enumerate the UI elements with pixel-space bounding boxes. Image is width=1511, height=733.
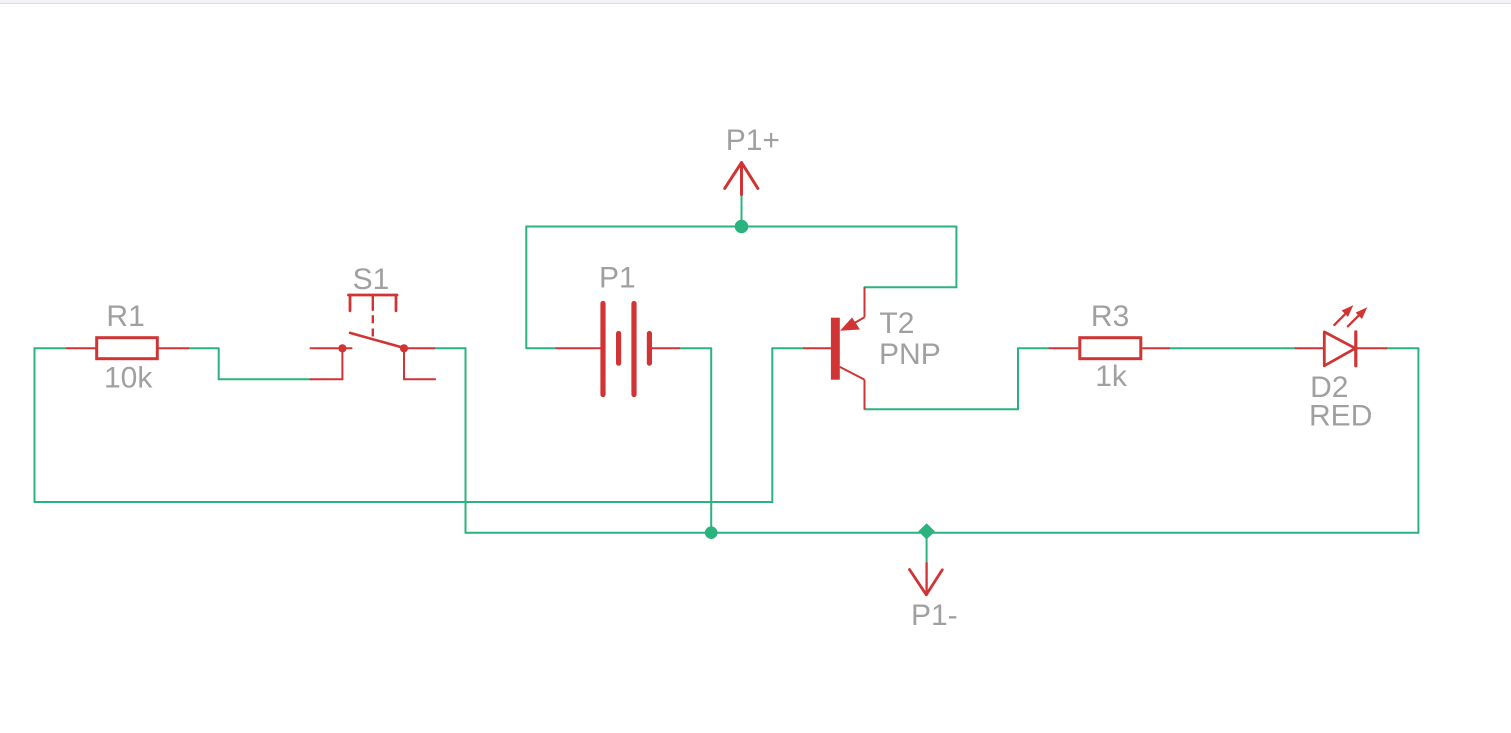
wire: vertical up to transistor base xyxy=(771,348,773,502)
wire: left vertical from R1 to base-return xyxy=(34,348,36,502)
S1 lever xyxy=(350,333,403,348)
wire: R1 right green to jog xyxy=(189,347,219,349)
svg-text:T2: T2 xyxy=(879,307,914,340)
junction dot on top bus xyxy=(735,220,749,234)
switch S1 xyxy=(311,295,436,379)
D2 anode pin xyxy=(1296,347,1325,349)
R1 left pin xyxy=(66,347,96,349)
wire: emitter horizontal y=287.2 xyxy=(865,286,957,288)
R3 left pin xyxy=(1049,347,1079,349)
S1 pin lower-left vertical xyxy=(341,348,343,379)
P1- power flag arrow xyxy=(910,563,943,595)
wire: emitter riser x=955.8 xyxy=(955,227,957,288)
wire: P1- green stem xyxy=(926,539,928,564)
wire: battery left riser x=526.3 xyxy=(525,227,527,349)
wire: R1 left green lead xyxy=(35,347,67,349)
S1 pin upper-left xyxy=(311,347,352,349)
P1 long plate 1 xyxy=(600,304,605,395)
T2 collector vertical xyxy=(864,380,866,410)
wire: jog horizontal to S1 lower-left pin xyxy=(219,378,311,380)
wire: LED drop x=1418.4 to bottom bus xyxy=(1417,348,1419,532)
wire: green stub to base xyxy=(772,347,803,349)
D2 triangle xyxy=(1324,332,1355,366)
svg-text:1k: 1k xyxy=(1095,360,1128,393)
wire: collector horizontal y=409.2 xyxy=(865,408,1019,410)
resistor R3 xyxy=(1049,338,1170,359)
P1 long plate 2 xyxy=(631,304,636,395)
wire: LED right green xyxy=(1387,347,1419,349)
LED D2 xyxy=(1296,314,1387,366)
wire: P1+ green stem xyxy=(741,195,743,227)
S1 actuator left leg xyxy=(349,295,352,311)
transistor T2 xyxy=(803,287,865,409)
S1 pin lower-left horizontal xyxy=(311,378,343,380)
svg-text:R1: R1 xyxy=(106,300,144,333)
net-port diamond P1- xyxy=(918,523,935,539)
T2 base bar xyxy=(831,318,840,380)
wire: collector riser x=1018 xyxy=(1017,348,1019,409)
R1 right pin xyxy=(159,347,190,349)
S1 actuator bar xyxy=(349,294,398,297)
S1 pin lower-right vertical xyxy=(403,348,405,379)
D2 cathode bar xyxy=(1354,332,1357,366)
top toolbar sliver xyxy=(0,0,1511,4)
P1+ power flag arrow xyxy=(725,163,758,195)
wire: bottom bus y=532.7 xyxy=(466,532,1419,534)
battery P1 xyxy=(557,304,680,395)
wire: jog down at x=218.7 xyxy=(218,348,220,379)
wire: vertical x=465.5 down to bottom bus xyxy=(465,348,467,532)
T2 base pin red xyxy=(803,347,831,349)
svg-text:10k: 10k xyxy=(104,362,153,395)
wire: battery right drop x=711.2 to bottom bus xyxy=(710,348,712,532)
D2 light arrow 1 head xyxy=(1342,305,1354,317)
S1 pin lower-right stub xyxy=(404,378,435,380)
T2 emitter arrowhead xyxy=(840,318,860,331)
T2 emitter diagonal xyxy=(851,317,865,325)
S1 actuator right leg xyxy=(395,295,398,311)
wire: top bus y=226.5 xyxy=(526,226,956,228)
junction dot on bottom bus xyxy=(705,526,718,539)
D2 cathode pin xyxy=(1356,347,1387,349)
wire: R3 to LED green xyxy=(1170,347,1296,349)
S1 actuator stem solid xyxy=(372,295,374,310)
wire: green to R3 left xyxy=(1018,347,1049,349)
D2 light arrow 2 shaft xyxy=(1348,315,1359,326)
svg-text:P1-: P1- xyxy=(911,599,958,632)
S1 right contact dot xyxy=(400,344,408,352)
P1 left pin xyxy=(557,347,602,349)
svg-text:R3: R3 xyxy=(1091,300,1129,333)
svg-text:PNP: PNP xyxy=(879,338,941,371)
resistor R1 xyxy=(66,338,189,359)
svg-text:RED: RED xyxy=(1309,400,1372,433)
wire: base return horizontal y=502 xyxy=(35,501,773,503)
P1 short plate 2 xyxy=(647,334,652,364)
S1 left contact dot xyxy=(338,344,346,352)
R1 body xyxy=(97,338,158,359)
R3 right pin xyxy=(1142,347,1170,349)
P1 short plate 1 xyxy=(616,334,621,364)
svg-text:P1: P1 xyxy=(599,261,636,294)
S1 actuator stem dashed xyxy=(372,315,374,337)
R3 body xyxy=(1080,338,1141,359)
P1 right pin xyxy=(652,347,680,349)
wire: S1 upper-right to corner xyxy=(434,347,465,349)
D2 light arrow 2 head xyxy=(1356,307,1368,319)
T2 emitter vertical xyxy=(864,287,866,317)
T2 collector diagonal xyxy=(840,367,865,380)
wire: battery left green lead xyxy=(526,347,556,349)
S1 pin upper-right xyxy=(404,347,434,349)
wire: battery right green lead xyxy=(679,347,711,349)
svg-text:S1: S1 xyxy=(353,263,390,296)
D2 light arrow 1 shaft xyxy=(1334,314,1345,325)
svg-text:P1+: P1+ xyxy=(726,124,780,157)
